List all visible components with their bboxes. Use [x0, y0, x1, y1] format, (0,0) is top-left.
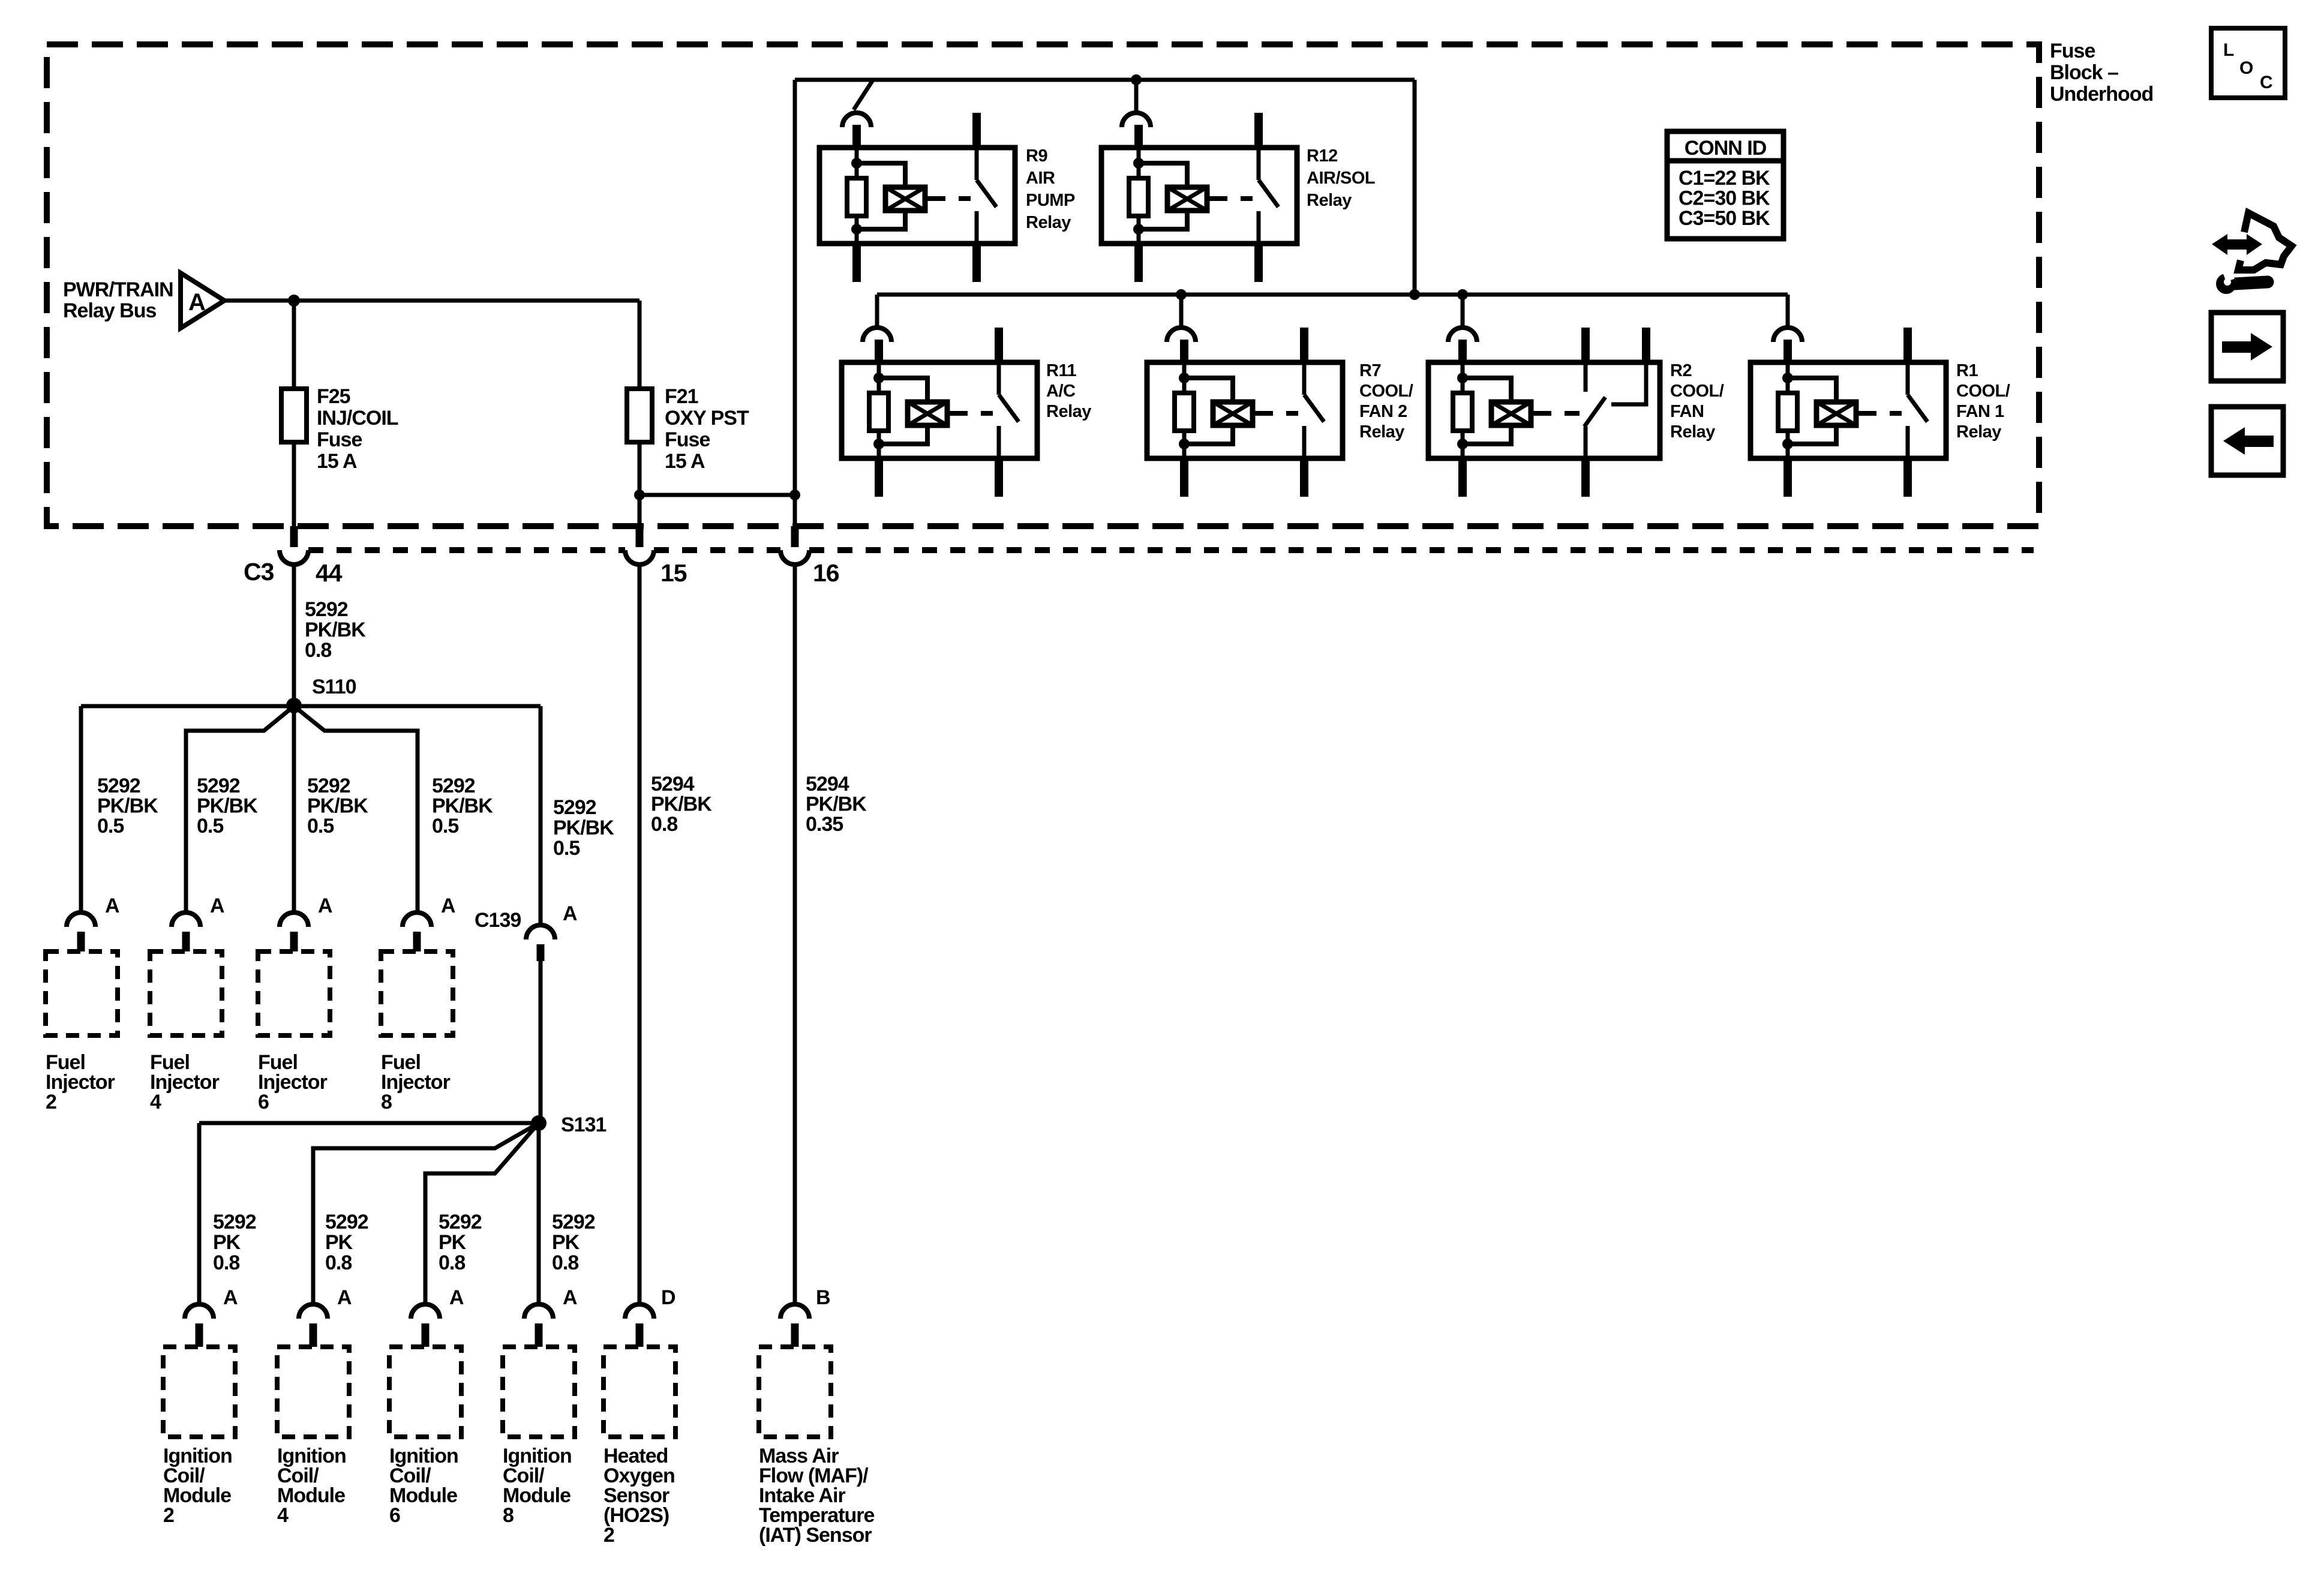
pin stub C139	[537, 944, 545, 961]
fuel injector 4 box	[150, 951, 222, 1035]
svg-text:FAN 1: FAN 1	[1956, 402, 2004, 421]
ignition coil 2 box	[163, 1347, 235, 1437]
connector cup pin 15	[625, 550, 654, 565]
svg-text:CONN ID: CONN ID	[1685, 137, 1767, 160]
svg-text:D: D	[661, 1286, 675, 1309]
pin stub injector 6	[290, 932, 298, 951]
svg-text:A: A	[223, 1286, 238, 1309]
wire diagonal tap to R9 coil	[854, 79, 873, 110]
svg-text:0.35: 0.35	[806, 813, 843, 836]
svg-text:A: A	[210, 894, 224, 917]
svg-text:0.8: 0.8	[305, 639, 331, 662]
connector cup pin 44	[280, 550, 308, 565]
svg-text:Fuse: Fuse	[665, 428, 710, 451]
icon LOC box	[2211, 28, 2285, 98]
svg-text:A/C: A/C	[1046, 382, 1076, 401]
svg-text:Block –: Block –	[2050, 61, 2118, 84]
splice S110	[286, 698, 302, 713]
svg-text:PK/BK: PK/BK	[553, 816, 614, 839]
wire F25 branch down	[292, 301, 296, 526]
fuel injector 2 box	[46, 951, 118, 1035]
connector cap R12 coil	[1122, 113, 1151, 127]
wire S110 horizontal	[81, 704, 541, 709]
svg-text:R2: R2	[1670, 361, 1692, 380]
connector cap fuel injector 2 pin A	[67, 912, 95, 927]
svg-text:5292: 5292	[553, 796, 596, 819]
connector cap HO2S pin D	[625, 1304, 654, 1319]
svg-text:Fuse: Fuse	[317, 428, 362, 451]
relay R11	[842, 328, 1037, 497]
svg-text:PK/BK: PK/BK	[197, 795, 258, 818]
svg-text:44: 44	[316, 559, 343, 587]
svg-text:AIR/SOL: AIR/SOL	[1307, 169, 1375, 188]
wire bus row1 to row2 drop	[1413, 80, 1417, 295]
MAF IAT sensor box	[759, 1347, 831, 1437]
svg-text:FAN 2: FAN 2	[1359, 402, 1407, 421]
relay R2	[1428, 328, 1660, 497]
svg-text:0.8: 0.8	[439, 1251, 465, 1274]
svg-text:F21: F21	[665, 385, 698, 408]
pin stub injector 8	[413, 932, 421, 951]
svg-text:8: 8	[503, 1504, 514, 1527]
svg-text:0.5: 0.5	[307, 815, 334, 837]
wire drop to R2 coil	[1461, 295, 1465, 327]
svg-text:B: B	[816, 1286, 830, 1309]
svg-text:A: A	[563, 902, 577, 925]
wire to fuel injector 8	[294, 706, 418, 913]
ignition coil 4 box	[277, 1347, 349, 1437]
svg-text:R9: R9	[1026, 146, 1047, 166]
pin stub coil 4	[310, 1323, 317, 1347]
svg-text:16: 16	[813, 559, 839, 587]
svg-text:A: A	[105, 894, 119, 917]
svg-text:Relay: Relay	[1307, 191, 1352, 210]
svg-text:PK/BK: PK/BK	[651, 793, 712, 816]
wire to ignition coil 2	[197, 1123, 202, 1304]
svg-text:15 A: 15 A	[317, 450, 357, 473]
wire to ignition coil 6	[425, 1123, 539, 1304]
relay R7	[1147, 328, 1343, 497]
wire to C139	[539, 706, 543, 925]
connector cap R11 coil	[863, 328, 891, 342]
pin stub 15	[636, 526, 644, 547]
svg-text:PUMP: PUMP	[1026, 191, 1075, 210]
wire to ignition coil 8	[537, 1123, 541, 1304]
node riser junction	[789, 490, 800, 500]
svg-text:S110: S110	[312, 676, 356, 698]
pin stub coil 6	[422, 1323, 430, 1347]
svg-text:R11: R11	[1046, 361, 1076, 380]
svg-text:5292: 5292	[552, 1211, 595, 1233]
fuse block underhood dashed box	[47, 44, 2039, 526]
wire C139 to S131	[539, 961, 543, 1123]
svg-text:8: 8	[381, 1091, 392, 1113]
svg-text:5292: 5292	[97, 775, 140, 797]
svg-text:0.5: 0.5	[197, 815, 223, 837]
svg-text:A: A	[563, 1286, 577, 1309]
svg-text:C2=30 BK: C2=30 BK	[1679, 187, 1770, 210]
svg-text:5294: 5294	[651, 773, 695, 795]
fuel injector 6 box	[258, 951, 330, 1035]
svg-text:Relay: Relay	[1026, 213, 1071, 232]
svg-text:PK: PK	[552, 1231, 580, 1254]
connector cap fuel injector 8 pin A	[403, 912, 431, 927]
svg-text:C3=50 BK: C3=50 BK	[1679, 207, 1770, 230]
heated oxygen sensor HO2S 2 box	[603, 1347, 675, 1437]
power source PWR/TRAIN Relay Bus triangle A	[181, 273, 224, 328]
ignition coil 6 box	[389, 1347, 461, 1437]
svg-text:5294: 5294	[806, 773, 849, 795]
svg-text:F25: F25	[317, 385, 350, 408]
fuel injector 8 box	[381, 951, 453, 1035]
svg-text:6: 6	[389, 1504, 400, 1527]
connector cap fuel injector 6 pin A	[280, 912, 308, 927]
icon harness repair (hand with wrench)	[2212, 213, 2292, 294]
svg-text:PK/BK: PK/BK	[806, 793, 867, 816]
svg-text:15 A: 15 A	[665, 450, 705, 473]
node row drop tap	[1409, 289, 1420, 300]
svg-text:5292: 5292	[305, 598, 348, 621]
svg-text:A: A	[318, 894, 332, 917]
svg-text:Fuse: Fuse	[2050, 40, 2095, 62]
pin stub 44	[290, 526, 298, 547]
svg-text:O: O	[2239, 58, 2253, 78]
splice S131	[531, 1115, 547, 1131]
svg-text:AIR: AIR	[1026, 169, 1055, 188]
svg-text:2: 2	[603, 1524, 614, 1547]
svg-text:A: A	[337, 1286, 352, 1309]
wire to fuel injector 6	[292, 706, 296, 913]
svg-text:R1: R1	[1956, 361, 1978, 380]
connector cap ignition coil 6 pin A	[411, 1304, 440, 1319]
pin stub coil 8	[535, 1323, 543, 1347]
svg-text:5292: 5292	[213, 1211, 256, 1233]
wire 5294 from pin 16 to MAF	[793, 565, 797, 1304]
svg-text:OXY PST: OXY PST	[665, 407, 749, 430]
svg-text:PK: PK	[325, 1231, 353, 1254]
pin stub injector 4	[182, 932, 190, 951]
connector cap MAF pin B	[780, 1304, 809, 1319]
connector cap ignition coil 4 pin A	[299, 1304, 328, 1319]
node R2 tap	[1457, 289, 1468, 300]
svg-text:PK: PK	[213, 1231, 241, 1254]
wire drop to R1 coil	[1786, 295, 1790, 327]
svg-text:C: C	[2260, 73, 2273, 92]
svg-text:2: 2	[46, 1091, 56, 1113]
node F21 output junction	[634, 490, 645, 500]
svg-text:0.8: 0.8	[325, 1251, 352, 1274]
svg-text:Relay Bus: Relay Bus	[63, 299, 156, 322]
svg-text:2: 2	[163, 1504, 174, 1527]
svg-text:A: A	[188, 289, 206, 316]
svg-text:5292: 5292	[432, 775, 475, 797]
svg-text:COOL/: COOL/	[1670, 382, 1724, 401]
pin stub coil 2	[196, 1323, 203, 1347]
wire 5292 from pin 44	[292, 565, 296, 706]
icon arrow previous (left)	[2211, 407, 2283, 475]
wire PWR/TRAIN relay bus feed	[224, 299, 639, 303]
node R7 tap	[1176, 289, 1187, 300]
svg-text:A: A	[441, 894, 455, 917]
connector cap R9 coil	[842, 113, 871, 127]
svg-text:C139: C139	[475, 909, 521, 932]
svg-text:0.8: 0.8	[552, 1251, 578, 1274]
wire F21 output to relay feed riser	[639, 493, 795, 497]
svg-text:L: L	[2223, 40, 2234, 60]
svg-text:PWR/TRAIN: PWR/TRAIN	[63, 278, 173, 301]
pin stub HO2S	[636, 1323, 644, 1347]
svg-text:A: A	[449, 1286, 464, 1309]
fuse F25 INJ/COIL 15A	[281, 389, 307, 442]
connector cap C139 pin A	[526, 925, 555, 939]
pin stub MAF	[791, 1323, 799, 1347]
connector cap R7 coil	[1167, 328, 1196, 342]
connector cap fuel injector 4 pin A	[172, 912, 200, 927]
svg-text:S131: S131	[561, 1113, 606, 1136]
svg-text:5292: 5292	[307, 775, 350, 797]
svg-text:0.5: 0.5	[97, 815, 124, 837]
connector cap R1 coil	[1773, 328, 1802, 342]
wire 5294 from pin 15 to HO2S	[638, 565, 642, 1304]
wire to fuel injector 2	[79, 706, 83, 913]
svg-text:0.5: 0.5	[432, 815, 458, 837]
relay R1	[1750, 328, 1946, 497]
svg-text:INJ/COIL: INJ/COIL	[317, 407, 398, 430]
svg-text:PK/BK: PK/BK	[432, 795, 493, 818]
pin stub 16	[791, 526, 799, 547]
svg-text:6: 6	[258, 1091, 269, 1113]
svg-text:Underhood: Underhood	[2050, 83, 2153, 106]
svg-text:COOL/: COOL/	[1956, 382, 2010, 401]
wire F21 branch down	[638, 301, 642, 526]
connector cap ignition coil 2 pin A	[185, 1304, 214, 1319]
ignition coil 8 box	[503, 1347, 575, 1437]
svg-text:C3: C3	[244, 558, 274, 586]
svg-text:PK/BK: PK/BK	[307, 795, 368, 818]
svg-text:Relay: Relay	[1956, 422, 2001, 442]
svg-text:R7: R7	[1359, 361, 1381, 380]
CONN ID table	[1667, 131, 1783, 239]
pin stub injector 2	[77, 932, 85, 951]
connector C3 pin row dotted line	[308, 547, 2034, 553]
svg-text:Relay: Relay	[1046, 402, 1091, 421]
svg-text:4: 4	[150, 1091, 161, 1113]
wire drop to R11 coil	[875, 295, 879, 327]
svg-text:PK/BK: PK/BK	[305, 619, 366, 641]
svg-text:FAN: FAN	[1670, 402, 1704, 421]
svg-text:R12: R12	[1307, 146, 1338, 166]
svg-text:C1=22 BK: C1=22 BK	[1679, 167, 1770, 190]
svg-text:4: 4	[277, 1504, 289, 1527]
connector cap R2 coil	[1448, 328, 1477, 342]
svg-text:Relay: Relay	[1670, 422, 1715, 442]
connector cap ignition coil 8 pin A	[524, 1304, 553, 1319]
wire to fuel injector 4	[186, 706, 294, 913]
node R12 tap	[1131, 74, 1142, 85]
svg-text:0.5: 0.5	[553, 837, 580, 860]
svg-text:15: 15	[660, 559, 687, 587]
svg-text:COOL/: COOL/	[1359, 382, 1413, 401]
svg-text:PK: PK	[439, 1231, 467, 1254]
fuse F21 OXY PST 15A	[627, 389, 652, 442]
wire relay bus row 2	[877, 293, 1788, 297]
wire drop to R7 coil	[1179, 295, 1184, 327]
svg-text:5292: 5292	[325, 1211, 368, 1233]
wire relay bus row 1	[795, 78, 1415, 82]
relay R12	[1101, 113, 1297, 282]
svg-text:Relay: Relay	[1359, 422, 1404, 442]
svg-text:PK/BK: PK/BK	[97, 795, 158, 818]
svg-text:0.8: 0.8	[213, 1251, 239, 1274]
wire drop to R12 coil	[1134, 80, 1139, 112]
node junction at F25 branch	[288, 295, 300, 307]
wire to ignition coil 4	[313, 1123, 539, 1304]
svg-text:5292: 5292	[439, 1211, 482, 1233]
relay R9	[819, 113, 1015, 282]
connector cup pin 16	[780, 550, 809, 565]
svg-text:5292: 5292	[197, 775, 240, 797]
svg-text:(IAT) Sensor: (IAT) Sensor	[759, 1524, 872, 1547]
svg-text:0.8: 0.8	[651, 813, 677, 836]
wire S131 horizontal	[199, 1121, 539, 1125]
wire relay feed riser x=1325	[793, 80, 797, 526]
icon arrow next (right)	[2211, 313, 2283, 381]
